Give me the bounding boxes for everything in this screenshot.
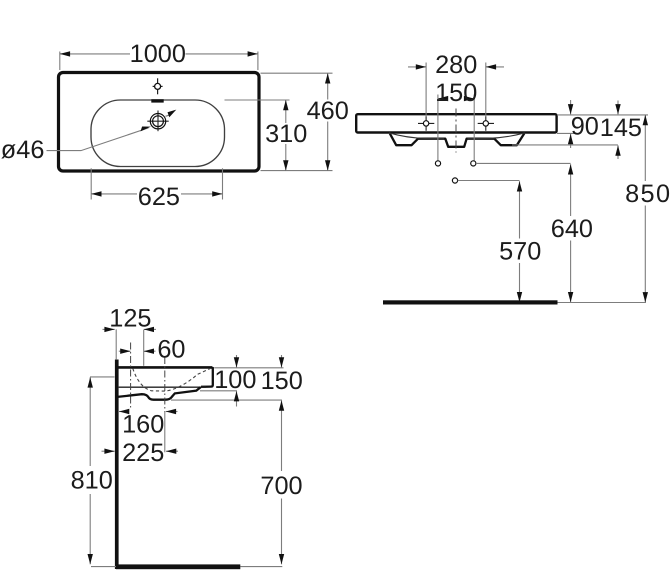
wall studs (front) [435,161,476,166]
svg-text:125: 125 [109,305,151,333]
dimension 640 [551,164,593,302]
fixing hole left (front) [418,116,434,131]
dimension 145 [600,101,642,160]
svg-text:145: 145 [600,114,642,142]
dimension 460 (plan depth) [307,73,349,170]
extension lines right of plan [225,73,333,170]
basin front edge (side) [201,367,213,386]
hidden bowl arc (side, dashed) [133,368,211,391]
wall line [115,360,119,570]
extension top right (side) [214,367,283,369]
overflow slot [151,99,163,102]
svg-text:150: 150 [435,79,477,107]
reference line studs to 640 [476,162,571,164]
extension 125 left (wall edge riser) [115,329,117,359]
fixing hole right (front) [478,116,494,131]
centerline (front) [455,109,457,153]
bowl silhouette (front, thin) [389,133,525,139]
dimension 150 (side) [261,355,303,395]
fixing axis (side, dash-dot) [130,343,132,409]
dimension 60 [119,336,186,364]
slab (front) [356,114,556,132]
dimension 570 [499,181,541,302]
svg-text:700: 700 [260,472,302,500]
reference line drain to 570 [458,180,520,182]
dimension 810 [71,377,113,564]
dimension 125 [103,305,157,333]
svg-text:810: 810 [71,467,113,495]
dimension 225 [102,439,179,467]
extension 810 top [90,376,115,378]
svg-text:60: 60 [157,336,185,364]
dimension 850 [625,115,671,303]
svg-text:460: 460 [307,97,349,125]
basin outer rim (plan) [59,73,260,172]
svg-text:160: 160 [122,411,164,439]
dimension 625 (bowl width) [91,168,222,211]
extension lines 150 (to lower studs) [438,95,474,161]
dimension 280 [408,51,504,79]
svg-text:225: 225 [122,439,164,467]
svg-text:ø46: ø46 [1,136,45,164]
drain outlet (front) [452,178,457,183]
dimension 150 (front) [435,79,477,107]
extension slab bottom right [557,132,578,134]
svg-text:1000: 1000 [130,40,186,68]
dimension 700 [260,400,302,564]
tap axis (side) [143,330,145,366]
floor line (side) [91,564,282,569]
svg-text:640: 640 [551,215,593,243]
dimension 100 [214,355,256,407]
extension ledge (side) [200,390,237,392]
label ø46 [1,136,45,164]
dimension 1000 (plan width) [60,40,258,70]
dimension 310 (bowl depth) [265,100,307,171]
basin top surface (side) [115,366,212,369]
dimension 160 [119,411,178,439]
svg-text:100: 100 [214,366,256,394]
drain hole ø46 [147,111,168,132]
underside profile (front) [390,133,525,146]
svg-text:310: 310 [265,120,307,148]
extension bowl bottom (side) [171,399,282,401]
bowl underside profile (side) [118,387,201,400]
drain axis (side) [164,357,166,452]
floor line (front) [383,300,646,304]
svg-text:850: 850 [625,180,671,208]
extension bump bottom right [512,144,618,146]
svg-text:90: 90 [571,112,599,140]
extension slab top right [557,114,648,116]
faucet hole [153,78,163,94]
svg-text:280: 280 [435,51,477,79]
svg-text:570: 570 [499,238,541,266]
dimension 90 [571,100,599,148]
svg-text:625: 625 [138,183,180,211]
slab underside line (side) [119,386,206,388]
basin inner bowl (plan) [91,100,225,167]
svg-text:150: 150 [261,367,303,395]
leader ø46 [47,110,177,151]
extension lines 280 [426,63,486,117]
